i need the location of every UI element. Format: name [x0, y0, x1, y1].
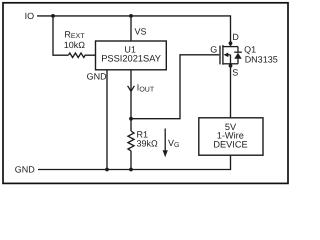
wire R1 to GND rail — [130, 151, 132, 170]
arrow IOUT current — [128, 86, 135, 92]
resistor R1 — [128, 131, 134, 151]
wire VS pin — [130, 16, 132, 41]
svg-text:10kΩ: 10kΩ — [64, 40, 86, 50]
wire U1 GND pin — [106, 70, 108, 170]
wire IO top rail — [37, 16, 231, 47]
svg-text:S: S — [232, 68, 238, 78]
wire gate branch — [131, 55, 219, 119]
wire GND bottom rail — [38, 155, 231, 169]
arrow VG voltage — [164, 129, 166, 152]
svg-text:Q1: Q1 — [244, 45, 256, 55]
wire IOUT from U1 — [130, 70, 132, 131]
border frame — [3, 3, 288, 184]
transistor Q1 body — [220, 45, 223, 65]
wire REXT branch vertical — [53, 16, 68, 55]
svg-text:39kΩ: 39kΩ — [137, 138, 159, 148]
svg-text:GND: GND — [15, 165, 36, 175]
node IO-REXT junction — [51, 14, 55, 18]
node IO-VS junction — [129, 14, 133, 18]
transistor Q1 substrate arrow — [224, 53, 229, 58]
IC U1 PSSI2021SAY box — [96, 41, 167, 70]
diode body of Q1 — [234, 47, 242, 64]
svg-text:IO: IO — [25, 11, 35, 21]
svg-text:VS: VS — [135, 27, 147, 37]
resistor REXT — [68, 53, 95, 58]
svg-text:GND: GND — [87, 71, 108, 81]
svg-text:G: G — [210, 44, 217, 54]
node source junction — [229, 64, 233, 68]
1-Wire device box — [199, 118, 263, 155]
node IOUT-R1-gate junction — [129, 117, 133, 121]
svg-text:DEVICE: DEVICE — [213, 140, 247, 150]
wire Q1 source to device — [230, 64, 232, 118]
node GND-U1 junction — [105, 168, 109, 172]
node drain junction — [229, 41, 233, 45]
svg-text:DN3135: DN3135 — [245, 55, 278, 65]
node GND-R1 junction — [129, 168, 133, 172]
svg-text:D: D — [232, 32, 239, 42]
svg-text:PSSI2021SAY: PSSI2021SAY — [101, 54, 161, 64]
